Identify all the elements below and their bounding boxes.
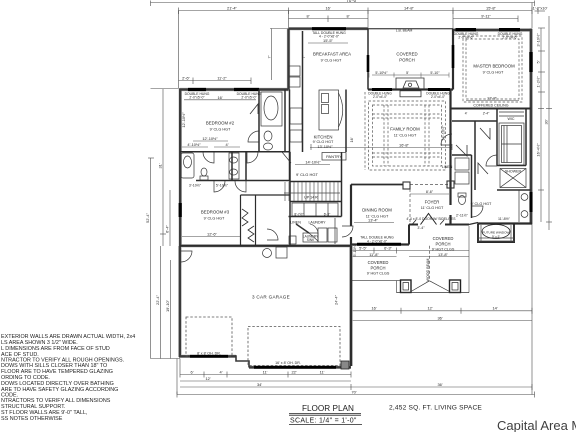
furnace/WH garage corner: [263, 249, 272, 258]
svg-text:9' CLG HGT: 9' CLG HGT: [471, 202, 492, 206]
bath strip walls bedrooms: [180, 151, 290, 153]
bedroom wing top wall: [180, 88, 289, 90]
porch diagonals: [411, 281, 430, 292]
svg-text:16'-8": 16'-8": [399, 143, 410, 148]
master tray ceiling dashed: [463, 36, 522, 102]
bottom dim rows (center): [180, 374, 351, 376]
svg-text:PORCH: PORCH: [435, 242, 450, 247]
svg-text:4': 4': [220, 370, 223, 375]
svg-text:9' CLG HGT: 9' CLG HGT: [321, 59, 342, 63]
kitchen island: [319, 90, 339, 130]
svg-text:2'-0"x4'-6": 2'-0"x4'-6": [502, 36, 518, 40]
svg-text:16': 16': [349, 137, 354, 142]
hall arc near garage: [267, 229, 278, 240]
bedroom2 top dims: [179, 80, 252, 82]
bedroom wing left wall: [179, 89, 181, 247]
toilet: [201, 168, 207, 176]
top porch edge: [368, 28, 453, 30]
svg-text:7': 7': [267, 55, 272, 58]
svg-text:16'-4½": 16'-4½": [536, 143, 541, 157]
svg-text:6'-3": 6'-3": [324, 212, 331, 216]
master bedroom right wall: [530, 29, 533, 224]
kitchen east wall: [345, 90, 347, 153]
svg-text:14'-8": 14'-8": [404, 6, 415, 11]
svg-text:2,452 SQ. FT. LIVING SPACE: 2,452 SQ. FT. LIVING SPACE: [389, 405, 482, 412]
svg-text:2'-0"x4'-0": 2'-0"x4'-0": [373, 95, 387, 99]
svg-text:MASTER BEDROOM: MASTER BEDROOM: [473, 64, 515, 69]
svg-text:12'-10½": 12'-10½": [202, 136, 218, 141]
svg-text:9' HGT CLGS: 9' HGT CLGS: [432, 248, 455, 252]
svg-text:2'-0"x4'-6": 2'-0"x4'-6": [458, 36, 474, 40]
foyer door zigzag: [421, 214, 437, 225]
svg-text:DINING ROOM: DINING ROOM: [362, 208, 392, 213]
porch corner post: [341, 361, 349, 369]
family room dim: [310, 147, 452, 149]
svg-text:8': 8': [347, 14, 350, 19]
svg-text:13'-10½": 13'-10½": [317, 144, 333, 149]
svg-text:SS NOTES OTHERWISE: SS NOTES OTHERWISE: [1, 416, 63, 422]
svg-text:2'-6": 2'-6": [182, 75, 190, 80]
svg-text:COVERED: COVERED: [368, 260, 389, 265]
svg-text:9' x 5': 9' x 5': [492, 235, 500, 239]
svg-text:9' HGT CLGS: 9' HGT CLGS: [367, 272, 390, 276]
svg-text:BEDROOM #3: BEDROOM #3: [201, 210, 230, 215]
porch interior dims: [375, 71, 468, 218]
svg-text:4 - 2'-0"x6'-0": 4 - 2'-0"x6'-0": [319, 35, 340, 39]
svg-text:12'-6": 12'-6": [207, 232, 218, 237]
svg-text:2'-0"x5'-0": 2'-0"x5'-0": [189, 96, 205, 100]
third dim row: [289, 18, 369, 20]
svg-text:16' x 8' OH. DR.: 16' x 8' OH. DR.: [275, 361, 301, 365]
master right wall hatch/windows: [529, 52, 532, 72]
garage/house south wall kitchen wing: [287, 29, 289, 90]
svg-text:L.B. BEAM: L.B. BEAM: [396, 29, 413, 33]
laundry machines: [318, 228, 327, 242]
svg-text:PORCH: PORCH: [399, 58, 415, 63]
svg-text:16': 16': [371, 306, 376, 311]
future window alcove hatch: [478, 225, 514, 242]
svg-text:6': 6': [191, 370, 194, 375]
svg-text:52'-4": 52'-4": [145, 212, 150, 223]
svg-text:8' x 8' OH. DR.: 8' x 8' OH. DR.: [197, 352, 221, 356]
top porch hearth: [396, 78, 424, 97]
hall closets: [455, 158, 469, 170]
svg-text:14'-10½": 14'-10½": [305, 160, 321, 165]
master bath bottom wall + alcove: [478, 224, 514, 243]
stairs walls: [290, 181, 342, 183]
svg-text:FLOOR PLAN: FLOOR PLAN: [302, 404, 354, 413]
svg-text:21'-4": 21'-4": [227, 6, 238, 11]
svg-text:5'-10½": 5'-10½": [375, 71, 388, 75]
svg-text:22': 22': [291, 370, 296, 375]
svg-text:70': 70': [351, 389, 356, 394]
master left porch wall window: [452, 45, 455, 68]
svg-text:9' CLG HGT: 9' CLG HGT: [210, 128, 231, 132]
svg-text:BEDROOM #2: BEDROOM #2: [206, 121, 235, 126]
svg-text:4': 4': [465, 112, 468, 116]
svg-text:31': 31': [158, 163, 163, 168]
svg-text:4'-0 x 8'-0 DOOR W/ SIDELITES: 4'-0 x 8'-0 DOOR W/ SIDELITES: [406, 217, 456, 221]
porch posts: [401, 280, 412, 293]
svg-text:WIC: WIC: [508, 117, 515, 121]
svg-text:SHOWER: SHOWER: [505, 170, 522, 174]
svg-text:2'-0"x4'-0": 2'-0"x4'-0": [431, 95, 445, 99]
svg-text:9' CLG HGT: 9' CLG HGT: [483, 71, 504, 75]
garage bottom walls with step: [179, 355, 236, 357]
bedroom3 closet walls + bifold zigzags: [241, 195, 291, 246]
svg-text:Capital Area M: Capital Area M: [497, 418, 576, 432]
svg-text:1'-2"x10': 1'-2"x10': [533, 5, 548, 10]
svg-text:3 CAR GARAGE: 3 CAR GARAGE: [252, 295, 290, 300]
svg-text:6'-4": 6'-4": [165, 225, 170, 233]
svg-text:11': 11': [263, 370, 268, 375]
svg-text:5'-10½": 5'-10½": [216, 184, 229, 188]
svg-text:5': 5': [536, 60, 541, 63]
svg-text:LINEN: LINEN: [442, 165, 453, 169]
door swing arcs: [250, 104, 258, 114]
svg-text:30': 30': [544, 119, 549, 124]
svg-text:19'-10": 19'-10": [165, 299, 170, 312]
svg-text:8': 8': [307, 14, 310, 19]
master WC: [459, 196, 466, 205]
svg-text:2'-11½": 2'-11½": [456, 214, 469, 218]
mud hall dim: [410, 193, 449, 195]
svg-text:PORCH: PORCH: [370, 266, 385, 271]
svg-text:13'-8": 13'-8": [438, 252, 449, 257]
svg-text:5'-5": 5'-5": [359, 246, 367, 251]
svg-text:11' CLG HGT: 11' CLG HGT: [366, 215, 389, 219]
svg-text:34': 34': [257, 382, 262, 387]
svg-text:COFFERED CEILING: COFFERED CEILING: [473, 104, 508, 108]
svg-text:SCALE: 1/4" = 1'-0": SCALE: 1/4" = 1'-0": [290, 418, 357, 425]
family room top wall: [368, 88, 453, 90]
svg-text:ARE TO HAVE SAFETY GLAZING ACC: ARE TO HAVE SAFETY GLAZING ACCORDING: [1, 387, 118, 393]
svg-text:11' CLG HGT: 11' CLG HGT: [421, 206, 444, 210]
master suite mid wall: [451, 108, 532, 110]
gray wall underlay: [179, 29, 532, 368]
dining bottom wall: [351, 243, 409, 245]
svg-text:12': 12': [205, 376, 210, 381]
dining window bar: [357, 243, 401, 246]
svg-text:11'-8½": 11'-8½": [498, 217, 511, 221]
garage door bars: [190, 355, 228, 358]
bottom right dim rows: [351, 310, 532, 312]
svg-text:1'-2½": 1'-2½": [536, 76, 541, 88]
master dims: [466, 100, 519, 102]
right dim column: [540, 28, 542, 222]
pantry box: [322, 153, 346, 161]
svg-text:13'-8": 13'-8": [487, 96, 498, 101]
svg-text:5': 5': [406, 71, 409, 75]
laundry: [303, 233, 318, 242]
bedroom2 inner dims: [193, 140, 228, 142]
svg-text:22'-4": 22'-4": [155, 294, 160, 305]
svg-text:3'-4": 3'-4": [417, 226, 425, 230]
bath tub bedroom wing: [181, 153, 194, 178]
svg-text:KITCHEN: KITCHEN: [314, 135, 333, 140]
breakfast slider door bar: [367, 55, 370, 72]
svg-text:3'-10½": 3'-10½": [536, 33, 541, 47]
svg-text:COVERED: COVERED: [433, 236, 454, 241]
svg-text:11': 11': [320, 370, 325, 375]
svg-text:11'-2": 11'-2": [217, 75, 227, 80]
kitchen west double wall: [289, 90, 291, 182]
garage left wall: [179, 246, 181, 357]
svg-text:15'-8": 15'-8": [486, 6, 497, 11]
svg-text:16': 16': [325, 6, 330, 11]
bedroom3 bottom / garage top wall: [180, 245, 351, 247]
lockers under stairs: [292, 203, 338, 216]
dining dims: [354, 222, 394, 224]
svg-text:SINK: SINK: [307, 238, 315, 242]
svg-text:36': 36': [437, 315, 442, 320]
top wall breakfast area: [289, 28, 369, 30]
svg-text:4': 4': [226, 142, 229, 147]
hall walls right side: [471, 155, 473, 218]
svg-text:24'-4": 24'-4": [334, 294, 339, 305]
shower with X: [500, 169, 526, 188]
kitchen west appliances: [289, 66, 300, 76]
svg-text:LAUNDRY: LAUNDRY: [308, 220, 326, 224]
svg-text:8'-6": 8'-6": [426, 190, 434, 194]
svg-text:COVERED: COVERED: [396, 52, 417, 57]
bedroom3 window bar: [179, 203, 182, 217]
svg-text:11'-8": 11'-8": [369, 252, 379, 257]
master bedroom top wall: [453, 28, 532, 31]
svg-text:4 - 2'-0"x6'-0": 4 - 2'-0"x6'-0": [367, 239, 388, 243]
svg-text:9' CLG HGT: 9' CLG HGT: [296, 172, 318, 177]
svg-text:15'-5": 15'-5": [323, 38, 334, 43]
svg-text:9'-11": 9'-11": [481, 14, 491, 19]
family room top windows: [372, 88, 392, 91]
garage door dashed headers: [186, 317, 340, 366]
porch dims: [351, 250, 469, 252]
svg-text:4'-10½": 4'-10½": [187, 142, 201, 147]
svg-text:2'-4": 2'-4": [483, 112, 490, 116]
top overall 70' line: [151, 2, 535, 4]
svg-text:9' CLG HGT: 9' CLG HGT: [313, 140, 334, 144]
svg-text:BREAKFAST AREA: BREAKFAST AREA: [313, 52, 351, 57]
svg-text:16': 16': [217, 95, 222, 100]
top-right jog dim: [535, 10, 546, 12]
svg-text:36': 36': [437, 382, 442, 387]
svg-text:2'-0"x5'-0": 2'-0"x5'-0": [241, 96, 257, 100]
svg-text:FOYER: FOYER: [425, 200, 440, 205]
svg-text:FAMILY ROOM: FAMILY ROOM: [390, 127, 420, 132]
second dim row: [179, 10, 533, 12]
master closet shelves: [499, 111, 524, 113]
svg-text:9' CLG HGT: 9' CLG HGT: [204, 217, 225, 221]
svg-text:5'-10": 5'-10": [430, 71, 440, 75]
vanity ovals: [230, 157, 238, 163]
svg-text:11' CLG HGT: 11' CLG HGT: [394, 134, 417, 138]
foyer front wall: [409, 224, 418, 226]
porch left wall: [350, 246, 352, 366]
svg-text:3'-10½": 3'-10½": [189, 184, 202, 188]
master sinks: [521, 194, 528, 201]
svg-text:LINEN: LINEN: [290, 220, 301, 224]
porch slab edges: [397, 292, 470, 294]
hall bath tub: [261, 92, 282, 126]
family/master divider: [449, 90, 451, 206]
svg-text:UP 14 R: UP 14 R: [304, 196, 318, 200]
breakfast dim: [308, 42, 348, 44]
foyer column blocks: [403, 182, 410, 189]
svg-text:14': 14': [492, 306, 497, 311]
svg-text:70'-0": 70'-0": [346, 0, 358, 3]
rotated dim text: [145, 33, 549, 312]
left dim column: [150, 158, 152, 359]
svg-text:PANTRY: PANTRY: [326, 154, 342, 159]
extension verticals top: [288, 11, 290, 29]
dining walls: [350, 185, 352, 227]
svg-text:6'-3": 6'-3": [384, 246, 392, 251]
garage upper dim: [182, 236, 240, 238]
svg-text:8'-7½": 8'-7½": [294, 212, 304, 216]
svg-text:12': 12': [427, 306, 432, 311]
